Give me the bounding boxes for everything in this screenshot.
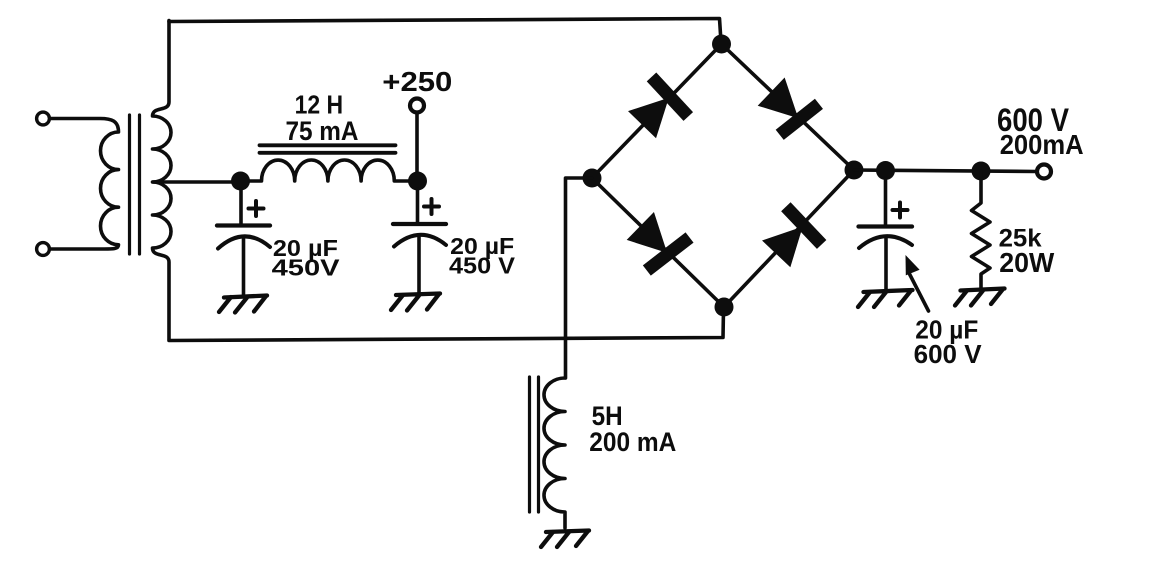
diode D2 xyxy=(753,73,824,144)
wire bridge arm top-right xyxy=(722,44,855,170)
transformer T1 core xyxy=(130,115,140,254)
diode D1 xyxy=(623,72,695,144)
capacitor C1 polarity plus xyxy=(249,201,264,216)
capacitor C3 polarity plus xyxy=(893,203,908,218)
inductor L1 12H winding xyxy=(249,160,409,181)
ground R1 xyxy=(955,289,1005,306)
node bridge top dot xyxy=(712,35,731,54)
wire top rail xyxy=(169,19,721,43)
wire bridge arm left-bottom xyxy=(592,178,724,307)
terminal 600V output xyxy=(1037,165,1051,179)
arrow pointing to C3 xyxy=(906,255,929,311)
node bridge left dot xyxy=(583,169,602,188)
svg-text:75 mA: 75 mA xyxy=(286,116,359,146)
resistor R1 xyxy=(972,171,991,290)
capacitor C1 xyxy=(217,189,270,295)
transformer T1 primary terminal (top) xyxy=(37,112,50,125)
svg-text:450V: 450V xyxy=(272,255,341,281)
transformer T1 primary winding xyxy=(50,119,119,250)
terminal +250 output xyxy=(410,99,424,113)
node B junction dot xyxy=(408,172,427,191)
svg-text:600 V: 600 V xyxy=(914,339,983,369)
wire bridge arm left-top xyxy=(592,44,722,178)
ground L2 xyxy=(541,531,589,548)
svg-text:450 V: 450 V xyxy=(449,253,516,279)
svg-text:200mA: 200mA xyxy=(1000,129,1084,160)
inductor L2 core xyxy=(530,377,539,512)
node A junction dot xyxy=(231,172,250,191)
wire bridge arm bottom-right xyxy=(724,170,854,307)
svg-text:200 mA: 200 mA xyxy=(589,427,676,457)
capacitor C2 xyxy=(393,189,446,293)
wire +250 terminal to node B xyxy=(415,113,419,176)
diode D4 xyxy=(757,202,828,273)
node D junction dot xyxy=(972,162,991,181)
transformer T1 primary terminal (bottom) xyxy=(37,243,50,256)
inductor L2 5H winding xyxy=(544,378,565,528)
wire bottom rail xyxy=(169,309,724,341)
node C junction dot xyxy=(876,161,895,180)
capacitor C2 polarity plus xyxy=(424,199,439,214)
diode D3 xyxy=(621,207,695,281)
svg-text:20W: 20W xyxy=(999,247,1055,278)
transformer T1 secondary winding xyxy=(153,21,172,340)
wire bridge left node to choke L2 xyxy=(566,178,593,378)
ground C1 xyxy=(219,296,267,313)
ground C2 xyxy=(391,294,440,311)
capacitor C3 xyxy=(859,179,913,291)
ground C3 xyxy=(858,290,913,307)
wire secondary center tap xyxy=(153,180,236,184)
inductor L1 core xyxy=(260,145,396,153)
wire output rail xyxy=(854,170,1037,172)
node bridge bottom dot xyxy=(715,298,734,317)
svg-text:+250: +250 xyxy=(382,66,452,97)
node bridge right dot xyxy=(845,161,864,180)
